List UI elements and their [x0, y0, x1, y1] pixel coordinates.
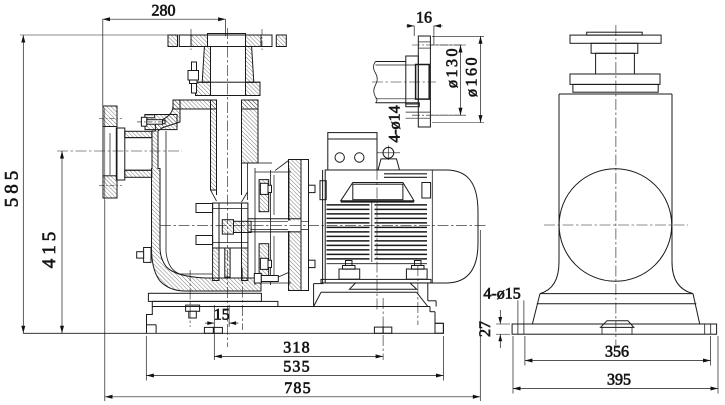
node: lower suction channel walls	[213, 248, 248, 281]
component: motor body	[320, 170, 478, 283]
bolt on chamber cover boss	[141, 117, 146, 126]
node: discharge channel walls inside body	[211, 100, 259, 195]
node: pipe stub with break line	[374, 62, 378, 103]
node: centerlines	[544, 25, 688, 345]
node: gland bolt bottom	[254, 274, 278, 284]
svg-text:535: 535	[283, 359, 311, 376]
bolts through backplate	[260, 183, 268, 194]
svg-text:ø130: ø130	[444, 46, 461, 88]
dim ø160 flange detail	[432, 36, 484, 122]
node: drain boss left bottom	[137, 248, 151, 263]
motor fins	[327, 205, 428, 259]
svg-text:4-ø15: 4-ø15	[483, 286, 520, 303]
node: body top plate	[173, 100, 258, 109]
dim 280 top	[103, 3, 226, 201]
node: bolt holes in flange	[418, 41, 430, 43]
label 4-ø15 right view	[483, 286, 524, 325]
node: bedplate	[147, 307, 444, 334]
node: step block	[591, 43, 638, 53]
dim 16 flange detail	[406, 10, 442, 46]
svg-text:415: 415	[39, 228, 60, 269]
node: pump discharge collar flange	[196, 82, 261, 95]
anchor pads on baseline	[204, 327, 213, 333]
component: motor terminal box	[328, 133, 377, 170]
node: base plate	[512, 324, 717, 334]
node: pump foot and pad	[148, 293, 278, 318]
node: motor adapter flange plate	[301, 160, 309, 291]
lug plate on top	[341, 183, 414, 201]
node: pedestal flare	[540, 262, 559, 294]
svg-text:395: 395	[607, 372, 631, 389]
dim 395 right view	[513, 336, 718, 394]
svg-text:27: 27	[477, 321, 494, 337]
node: collar	[570, 74, 660, 84]
node: back plate (bracket flange)	[260, 160, 315, 291]
node: gusset braces	[275, 161, 288, 171]
node: centerlines	[57, 28, 487, 360]
svg-text:585: 585	[2, 167, 23, 208]
node: motor feet and bolts	[321, 261, 431, 290]
node: flange hub	[406, 56, 419, 104]
node: suction nozzle pipe	[125, 131, 152, 177]
component: impeller and shaft nut	[213, 203, 252, 248]
svg-text:785: 785	[284, 380, 312, 397]
node: motor pedestal	[314, 284, 437, 307]
svg-text:15: 15	[214, 307, 230, 324]
node: base center boss	[601, 321, 634, 328]
node: suction liner wear rings	[196, 204, 213, 245]
dim 585 left	[2, 35, 180, 333]
anchor bolt under foot	[186, 305, 200, 311]
dim 318 bottom	[214, 340, 383, 359]
svg-text:ø160: ø160	[463, 55, 480, 97]
dim 15 at pump foot	[205, 305, 239, 360]
node: top flange	[570, 35, 661, 43]
label 4-ø14	[387, 105, 404, 142]
node: suction flange	[99, 106, 125, 198]
node: casing cover / liner plates	[255, 168, 291, 285]
dim 785 bottom	[105, 200, 481, 401]
wire: ground baseline	[23, 332, 444, 334]
svg-text:4-ø14: 4-ø14	[387, 105, 404, 142]
svg-text:356: 356	[605, 344, 629, 361]
svg-text:280: 280	[152, 3, 176, 20]
node: stud bolt on collar left	[188, 62, 199, 93]
svg-text:16: 16	[416, 10, 432, 27]
node: neck	[596, 53, 635, 74]
svg-text:318: 318	[283, 340, 311, 357]
node: suction chamber cover and left wall	[137, 100, 261, 291]
node: flange plate	[418, 36, 430, 127]
dim 535 bottom	[146, 336, 443, 381]
node: discharge neck walls	[202, 47, 254, 83]
component: shaft	[248, 219, 309, 232]
dim ø130 flange detail	[430, 45, 464, 115]
dim 415 left	[39, 151, 64, 333]
node: volute interior lines	[166, 109, 272, 274]
node: casing body	[559, 93, 672, 95]
node: top discharge flange plate	[168, 29, 286, 52]
dim 27 right view	[477, 310, 510, 348]
component: motor eyebolt	[377, 146, 400, 171]
dim 356 right view	[525, 336, 711, 366]
node: casing circle	[559, 169, 672, 282]
